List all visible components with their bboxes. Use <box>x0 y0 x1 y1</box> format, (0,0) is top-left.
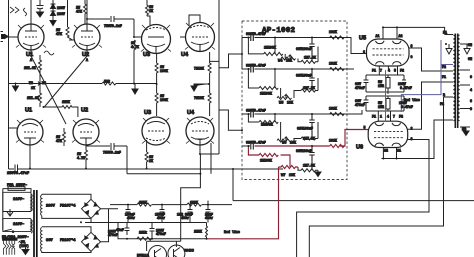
svg-text:Red line: Red line <box>224 230 240 234</box>
svg-text:1W7.5K: 1W7.5K <box>303 137 315 141</box>
resistor 1W10K upper <box>208 52 219 84</box>
svg-text:W7: W7 <box>281 174 285 178</box>
wire F2b terminal <box>444 119 454 121</box>
tube U3 triode upper <box>142 25 171 55</box>
wire filter bottom <box>118 223 207 239</box>
svg-text:3W1K: 3W1K <box>139 200 147 204</box>
bridge BR1 FR107x4 <box>82 199 101 218</box>
transistor Q1 BU511A <box>147 241 167 257</box>
wire sine mark top <box>24 8 27 16</box>
wire U4 cathode net <box>181 0 219 202</box>
svg-text:1W7.5K: 1W7.5K <box>304 56 316 60</box>
tube U4 triode upper <box>180 15 215 52</box>
svg-text:470uF: 470uF <box>355 103 365 107</box>
wire V4b cathode drop <box>210 143 212 174</box>
svg-text:110V~: 110V~ <box>13 198 25 202</box>
resistor mains small <box>19 241 26 243</box>
capacitor 750V cathode <box>87 143 127 150</box>
resistor 2W1K low <box>137 237 151 240</box>
svg-text:F2: F2 <box>440 102 444 106</box>
capacitor 33uF400V <box>188 205 193 223</box>
transformer T1 primary upper 110V <box>3 192 31 211</box>
tube U1 triode lower <box>9 119 44 169</box>
wire cathode bus <box>9 169 474 201</box>
wire U6 network bottom <box>366 110 404 112</box>
wire taps secondary <box>460 44 470 127</box>
svg-text:15R: 15R <box>378 84 384 88</box>
ground arrow mains <box>22 246 29 255</box>
svg-text:5: 5 <box>364 126 366 130</box>
svg-text:0: 0 <box>470 75 472 79</box>
svg-text:15R: 15R <box>378 105 384 109</box>
svg-text:0.47uF: 0.47uF <box>400 86 412 90</box>
transformer T1 primary lower 110V <box>3 219 31 232</box>
potentiometer W7 10K red <box>279 165 299 168</box>
svg-text:F1: F1 <box>442 75 446 79</box>
svg-text:B: B <box>443 93 445 97</box>
svg-text:W3: W3 <box>29 81 33 85</box>
svg-text:1: 1 <box>380 115 382 119</box>
svg-text:250V0.47uF: 250V0.47uF <box>7 172 29 176</box>
resistor 2W2K vertical <box>206 223 208 239</box>
winding T2 secondary <box>458 35 460 121</box>
svg-text:10K: 10K <box>289 173 295 177</box>
resistor 1W10K lower <box>208 84 211 116</box>
winding secondary 30V <box>41 228 42 252</box>
capacitor 250V0.47uF <box>15 165 18 173</box>
svg-text:W5: W5 <box>279 102 284 106</box>
module W7 black parts <box>242 143 321 177</box>
wire U5 pin2 <box>347 38 367 70</box>
switch S1 <box>3 229 14 232</box>
capacitor 750V0.1uF coupling <box>111 16 134 22</box>
resistor 2W47K lower <box>63 128 66 146</box>
svg-text:A: A <box>86 58 88 62</box>
resistor 8W2K filter <box>187 203 202 206</box>
svg-text:63V100uF: 63V100uF <box>296 47 312 51</box>
svg-text:400v: 400v <box>157 216 165 220</box>
svg-text:F1: F1 <box>372 69 376 73</box>
svg-text:FR107*4: FR107*4 <box>60 204 76 209</box>
capacitor 100V0.47uF U6 <box>402 96 406 111</box>
ground arrow W2 <box>13 84 19 92</box>
svg-text:1W7.5K: 1W7.5K <box>303 86 315 90</box>
winding bumps primary lower <box>31 220 32 234</box>
capacitor 6.3V470uF U5 <box>364 75 369 92</box>
svg-text:W4: W4 <box>278 60 283 64</box>
svg-text:4: 4 <box>388 69 390 73</box>
resistor 2W1K plate U3 <box>146 0 151 25</box>
svg-text:U3: U3 <box>144 110 151 116</box>
svg-text:30V: 30V <box>46 239 53 243</box>
fuse F5 <box>3 187 31 193</box>
red signal path <box>207 130 369 239</box>
svg-text:A1: A1 <box>376 34 380 38</box>
svg-text:630V0.47uF: 630V0.47uF <box>246 64 266 68</box>
svg-text:EA/0BA 220V~: EA/0BA 220V~ <box>2 235 29 240</box>
svg-text:2: 2 <box>411 127 413 131</box>
winding secondary 200V <box>41 195 42 215</box>
svg-text:2W1k: 2W1k <box>139 231 147 235</box>
svg-text:101K: 101K <box>329 139 337 143</box>
wire left rail <box>8 0 10 169</box>
svg-text:101K: 101K <box>329 107 337 111</box>
svg-text:A1: A1 <box>397 149 401 153</box>
diode D1 100V zener <box>51 0 56 11</box>
resistor 2W100K lower <box>155 84 158 116</box>
wire U6 top pins <box>378 111 390 121</box>
svg-text:750V0.1uF: 750V0.1uF <box>104 24 122 28</box>
ground arrow mid <box>132 84 138 95</box>
svg-text:M2: M2 <box>462 127 466 131</box>
wire filter top <box>110 204 232 206</box>
wire U5 network top <box>366 74 404 76</box>
node input jack J1 <box>1 32 9 42</box>
capacitor 100uF400V <box>126 205 131 223</box>
resistor 2W1K grid row <box>44 106 78 118</box>
svg-text:7: 7 <box>393 115 395 119</box>
bridge BR2 FR107x4 <box>82 232 101 251</box>
svg-text:A: A <box>30 58 32 62</box>
tube U2 triode lower <box>73 119 99 146</box>
svg-text:4.7K: 4.7K <box>131 45 139 49</box>
svg-text:100V: 100V <box>57 12 65 16</box>
resistor 2W4.7K cathode U2 <box>85 146 88 169</box>
wire inner loop <box>309 97 443 257</box>
svg-text:10K: 10K <box>290 141 296 145</box>
svg-text:1K: 1K <box>149 159 153 163</box>
capacitor 63V100uF W7 <box>309 146 314 170</box>
resistor 2W100K upper <box>155 54 158 84</box>
wire cross couple X <box>31 56 87 124</box>
ground arrow right <box>463 128 469 136</box>
tube U5 output <box>367 39 410 66</box>
wire F1 terminal <box>444 81 454 83</box>
svg-text:470uF: 470uF <box>156 232 166 236</box>
svg-text:(100): (100) <box>19 244 29 248</box>
ground arrow U4 <box>191 84 210 91</box>
svg-text:8: 8 <box>470 99 472 103</box>
svg-text:4: 4 <box>470 88 472 92</box>
svg-text:1K: 1K <box>149 9 153 13</box>
svg-text:W6: W6 <box>282 142 286 146</box>
wire U6 anode leads <box>382 120 444 159</box>
svg-text:1K: 1K <box>31 86 35 90</box>
svg-text:F1: F1 <box>372 115 376 119</box>
resistor 3W1K filter <box>137 203 152 206</box>
svg-text:F2: F2 <box>399 115 403 119</box>
wire mains zigzags <box>4 240 15 255</box>
svg-text:6: 6 <box>411 55 413 59</box>
tube U1 triode upper <box>5 0 44 56</box>
svg-text:630V0.47uF: 630V0.47uF <box>246 32 266 36</box>
wire B terminal <box>444 96 454 98</box>
svg-text:1W100K: 1W100K <box>261 123 273 127</box>
svg-text:BU511A: BU511A <box>137 254 149 257</box>
winding T2 primary <box>453 35 455 121</box>
svg-text:3: 3 <box>411 44 413 48</box>
capacitor 22uF400V <box>206 201 211 223</box>
module W5 <box>242 66 347 100</box>
svg-text:U1: U1 <box>25 108 32 114</box>
wire bias bus y84 <box>9 83 158 85</box>
svg-text:7W10K: 7W10K <box>194 96 204 100</box>
svg-text:47K: 47K <box>56 139 62 143</box>
wire BR1 out <box>85 209 118 223</box>
svg-text:0: 0 <box>470 107 472 111</box>
svg-text:110V~: 110V~ <box>13 223 25 227</box>
svg-text:101K: 101K <box>329 30 337 34</box>
svg-text:4: 4 <box>387 115 389 119</box>
resistor 5W2K inline <box>102 82 116 85</box>
svg-text:630V0.47uF: 630V0.47uF <box>246 141 266 145</box>
resistor 2W4.7K <box>133 40 136 84</box>
arrow tap right <box>464 44 470 54</box>
capacitor C top decoupling <box>37 0 44 17</box>
wire W6 out to U6 <box>347 110 362 114</box>
svg-text:CM: CM <box>468 57 472 61</box>
svg-text:7W10K: 7W10K <box>194 67 204 71</box>
resistor 2W47K grid U2 <box>66 27 73 40</box>
resistor 1W7.5K W7 <box>298 167 318 172</box>
wire U6 pin3 <box>297 140 429 257</box>
svg-text:F2: F2 <box>442 65 446 69</box>
winding bumps primary upper <box>31 194 32 211</box>
arrow tap left <box>446 44 452 54</box>
wire to U3 grid <box>134 19 142 37</box>
svg-text:A2: A2 <box>399 34 403 38</box>
module W6 <box>242 111 347 143</box>
diode D2 100V zener <box>50 11 56 26</box>
svg-text:AP-1002: AP-1002 <box>262 27 296 35</box>
capacitor C 630V0.47uF W7 <box>242 143 253 150</box>
arrow phase <box>7 209 13 216</box>
svg-text:3: 3 <box>411 137 413 141</box>
wire sine mark U1 <box>44 51 54 55</box>
module W4 <box>242 34 347 63</box>
wire 30V loop <box>42 227 91 253</box>
svg-text:100V: 100V <box>57 6 65 10</box>
tube U2 triode upper <box>69 0 100 56</box>
svg-text:F5A 250V~: F5A 250V~ <box>7 184 28 188</box>
svg-text:40uF: 40uF <box>116 228 124 232</box>
tube pin ticks <box>16 23 215 144</box>
svg-text:2W1.6K: 2W1.6K <box>24 66 36 70</box>
core T2 <box>455 34 457 129</box>
svg-text:FR107*4: FR107*4 <box>60 238 76 243</box>
svg-text:400v: 400v <box>127 216 135 220</box>
svg-text:470uF: 470uF <box>108 233 118 237</box>
svg-text:U6: U6 <box>356 145 363 151</box>
wire U5 anode leads <box>383 27 445 39</box>
potentiometer W2 chain <box>36 55 42 107</box>
svg-text:10K: 10K <box>287 101 293 105</box>
svg-text:2W1.6K: 2W1.6K <box>27 96 39 100</box>
core T1 hatched <box>34 190 37 257</box>
resistor 2W1K cathode U3 <box>145 152 148 169</box>
capacitor 6.3V470uF U6 <box>364 96 405 111</box>
wire U5 cathode pins <box>379 66 397 75</box>
blue wires <box>386 40 454 121</box>
wire into box W4 <box>219 38 242 70</box>
svg-text:63V100uF: 63V100uF <box>296 149 312 153</box>
svg-text:C3466: C3466 <box>184 249 194 253</box>
svg-text:47K: 47K <box>56 32 62 36</box>
svg-text:5W2: 5W2 <box>104 79 110 83</box>
svg-text:2W2K: 2W2K <box>194 230 202 234</box>
box AP-1002 dashed <box>242 21 347 180</box>
capacitor 150uF400V <box>160 205 165 223</box>
resistor 2W47K plate <box>84 0 87 24</box>
svg-text:200V: 200V <box>46 205 56 209</box>
resistor 5W15R U5 <box>386 75 390 92</box>
svg-text:U2: U2 <box>81 108 88 114</box>
capacitor 40uF <box>125 223 130 236</box>
svg-text:U5: U5 <box>359 36 366 42</box>
svg-text:U3: U3 <box>143 52 150 58</box>
svg-text:1W100K: 1W100K <box>260 92 272 96</box>
wire grid rail <box>67 0 69 27</box>
svg-text:U4: U4 <box>181 52 189 58</box>
svg-text:A2: A2 <box>384 149 388 153</box>
wire E1 terminal <box>445 34 453 36</box>
svg-text:U4: U4 <box>187 110 195 116</box>
svg-text:2: 2 <box>363 50 365 54</box>
svg-text:Red line: Red line <box>404 98 420 102</box>
svg-text:1W7.5K: 1W7.5K <box>303 164 315 168</box>
wire U2 plate node <box>87 18 110 20</box>
transistor Q2 C3466 <box>147 202 185 257</box>
wire red down <box>207 167 279 239</box>
svg-text:7: 7 <box>380 69 382 73</box>
svg-text:101K: 101K <box>329 62 337 66</box>
wire red W7 input <box>255 130 369 147</box>
terminal blocks <box>3 238 18 240</box>
svg-text:E1: E1 <box>443 31 447 35</box>
wire U5 pin3 <box>409 48 444 71</box>
transformer T2 output <box>444 34 471 129</box>
svg-text:47K: 47K <box>76 10 82 14</box>
svg-text:5: 5 <box>394 69 396 73</box>
svg-text:W2: W2 <box>42 81 46 85</box>
svg-text:400v: 400v <box>205 216 213 220</box>
svg-text:63V100uF: 63V100uF <box>297 127 313 131</box>
svg-text:630V0.47uF: 630V0.47uF <box>246 109 266 113</box>
tube U4 triode lower <box>186 117 214 154</box>
svg-text:100K: 100K <box>160 69 168 73</box>
svg-text:4.7K: 4.7K <box>77 156 85 160</box>
svg-text:2W1K: 2W1K <box>62 100 70 104</box>
svg-text:0.47uF: 0.47uF <box>401 105 413 109</box>
svg-text:470uF: 470uF <box>355 86 365 90</box>
svg-text:750V0.1uF: 750V0.1uF <box>103 151 121 155</box>
svg-text:400v: 400v <box>181 216 189 220</box>
resistor 5W15R U6 <box>386 96 390 111</box>
svg-text:CH: CH <box>468 43 472 47</box>
svg-text:8W2K: 8W2K <box>190 200 198 204</box>
ground U5 cathode <box>387 92 389 94</box>
wire blue E1 drop <box>401 40 453 112</box>
resistor 101K W7 red <box>330 144 344 147</box>
svg-text:1W100K: 1W100K <box>260 159 272 163</box>
wire bus B <box>127 146 200 174</box>
svg-text:F2: F2 <box>400 69 404 73</box>
svg-text:1W100K: 1W100K <box>264 46 276 50</box>
svg-text:10K: 10K <box>286 59 292 63</box>
wire blue heater <box>385 70 387 121</box>
tube U3 triode lower <box>142 117 170 152</box>
wire input chevrons <box>10 7 19 13</box>
wire BR2 out <box>101 209 109 242</box>
wire 200V loop <box>42 194 91 218</box>
svg-text:63V100uF: 63V100uF <box>296 74 312 78</box>
resistor 1W100K W7 red <box>248 146 290 167</box>
wire U6 pin2 <box>408 82 444 129</box>
svg-text:100K: 100K <box>160 98 168 102</box>
wire box feed lower <box>219 110 242 130</box>
capacitor 100V0.47uF U5 <box>366 75 406 92</box>
tube U6 output <box>368 121 408 147</box>
wire primary left rail <box>2 189 4 230</box>
wire F2 terminal <box>444 70 454 72</box>
wire filter mid <box>118 222 207 224</box>
ground arrow W7 <box>315 170 321 176</box>
capacitor 100V470uF low <box>150 223 155 239</box>
